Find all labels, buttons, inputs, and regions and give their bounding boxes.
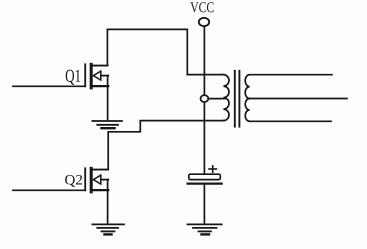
transformer core line 2 (238, 71, 240, 127)
Q2 source/body vertical down to ground (107, 180, 109, 225)
wire secondary bottom output (250, 120, 331, 122)
wire Q1 drain loop to transformer primary top (107, 29, 223, 74)
transistor Q1 (85, 64, 108, 120)
ground (Q2 source) (92, 224, 124, 234)
node VCC label (190, 2, 213, 12)
transformer core line 1 (234, 71, 236, 127)
Q2 body arrow (93, 175, 100, 184)
transformer T1 secondary winding lower half (2 loops, bulge left) (245, 99, 249, 122)
Q1 drain stub (93, 65, 108, 67)
ground (Q1 source) (92, 121, 122, 128)
wire capacitor to ground (203, 185, 205, 224)
Q1 body arrow (93, 71, 100, 80)
Q1 channel bar (90, 64, 93, 88)
Q2 body stub (100, 179, 108, 181)
capacitor C1 polarity plus sign (209, 166, 216, 172)
wire Q1 gate input (13, 85, 85, 87)
transformer primary center tap circle (201, 95, 209, 102)
capacitor C1 top plate (hollow) (189, 174, 221, 179)
transistor Q2 (85, 168, 108, 224)
ground (capacitor) (187, 224, 221, 234)
Q1 gate bar (84, 64, 86, 86)
Q2 drain stub (93, 169, 108, 171)
svg-text:Q2: Q2 (65, 173, 83, 189)
capacitor C1 bottom plate (188, 182, 222, 184)
wire VCC vertical down to capacitor (203, 26, 205, 174)
Q1 body stub (100, 75, 108, 77)
transformer T1 primary winding (4 loops, bulge right) (223, 75, 229, 121)
wire center tap to winding (208, 98, 224, 100)
wire transformer primary bottom step to Q2 drain (108, 121, 223, 170)
VCC terminal circle (199, 18, 209, 26)
transformer T1 secondary winding upper half (2 loops, bulge left) (245, 75, 249, 99)
Q2 gate bar (84, 168, 86, 190)
wire secondary center tap output (250, 98, 347, 100)
wire Q2 gate input (13, 189, 85, 191)
wire secondary top output (250, 74, 332, 76)
Q2 source stub (92, 189, 109, 191)
Q1 source stub (92, 85, 109, 87)
Q1 source/body vertical down to ground (107, 76, 109, 121)
Q2 channel bar (90, 168, 93, 192)
transistor Q1 label (66, 70, 81, 85)
